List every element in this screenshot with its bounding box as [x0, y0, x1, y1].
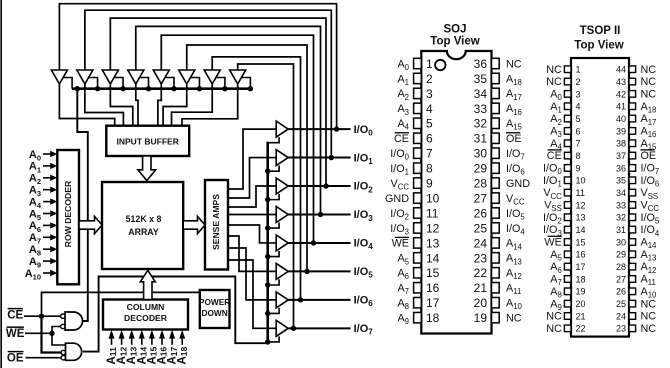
- wire data input DI6 to input buffer block: [172, 84, 213, 127]
- TSOP pin 44 stub: [629, 66, 636, 73]
- svg-text:24: 24: [616, 311, 626, 321]
- svg-text:A17: A17: [506, 88, 522, 102]
- wire A2 into row decoder: [43, 177, 52, 179]
- svg-text:OE: OE: [7, 352, 24, 364]
- wire data input DI4 to input buffer block: [158, 84, 161, 127]
- TSOP pin 13 stub: [564, 214, 571, 221]
- svg-text:CE: CE: [547, 150, 562, 162]
- TSOP pin 42 stub: [629, 91, 636, 98]
- wire enable tap of input buffer DI1: [89, 78, 98, 89]
- SOJ pin 3 stub: [414, 88, 422, 98]
- svg-text:8: 8: [576, 151, 581, 161]
- svg-text:7: 7: [426, 147, 433, 161]
- svg-text:9: 9: [426, 177, 433, 191]
- svg-text:NC: NC: [546, 311, 562, 323]
- TSOP pin 11 stub: [564, 189, 571, 196]
- TSOP pin 25 stub: [629, 300, 636, 307]
- svg-text:40: 40: [616, 114, 626, 124]
- SOJ pin 22 stub: [492, 268, 500, 278]
- svg-text:NC: NC: [546, 323, 562, 335]
- wire I/O2 output line: [288, 185, 350, 187]
- node junction enable tap DI2: [120, 86, 125, 91]
- arrow input buffer to array: [138, 156, 156, 181]
- arrow array to sense amps: [183, 216, 205, 233]
- svg-text:36: 36: [616, 163, 626, 173]
- svg-text:15: 15: [576, 237, 586, 247]
- wire CE to read gate: [42, 316, 62, 352]
- node feedback junction I/O1: [329, 155, 334, 160]
- TSOP pin 10 stub: [564, 177, 571, 184]
- SOJ pin 36 stub: [492, 58, 500, 68]
- TSOP pin 43 stub: [629, 78, 636, 85]
- wire sense amp output 3 to output buffer DO3: [228, 213, 276, 215]
- svg-text:5: 5: [576, 114, 581, 124]
- gate U2 read enable (WE*CE*OE): [66, 343, 82, 360]
- svg-text:SENSE AMPS: SENSE AMPS: [211, 194, 221, 250]
- TSOP pin 2 stub: [564, 78, 571, 85]
- svg-text:VCC: VCC: [391, 178, 410, 192]
- TSOP pin 18 stub: [564, 276, 571, 283]
- TSOP pin 34 stub: [629, 189, 636, 196]
- TSOP pin 9 stub: [564, 165, 571, 172]
- wire A1 into row decoder: [43, 165, 52, 167]
- wire sense amp output 4 to output buffer DO4: [228, 225, 276, 243]
- svg-text:INPUT BUFFER: INPUT BUFFER: [117, 137, 179, 147]
- wire write-enable bus: [72, 87, 251, 90]
- svg-text:13: 13: [426, 236, 440, 250]
- svg-text:22: 22: [576, 324, 586, 334]
- node junction enable tap DO3: [265, 225, 270, 230]
- wire feedback loop I/O2: [110, 18, 326, 186]
- input data buffer DI7: [230, 70, 246, 84]
- svg-text:34: 34: [474, 87, 488, 101]
- svg-text:OE: OE: [641, 150, 657, 162]
- svg-text:9: 9: [576, 163, 581, 173]
- wire A9 into row decoder: [43, 260, 52, 262]
- TSOP pin 16 stub: [564, 251, 571, 258]
- svg-text:31: 31: [474, 132, 488, 146]
- svg-text:27: 27: [474, 191, 488, 205]
- wire enable tap of input buffer DI5: [191, 78, 200, 89]
- SOJ pin 28 stub: [492, 178, 500, 188]
- svg-text:33: 33: [474, 102, 488, 116]
- block ROW DECODER: [57, 150, 79, 284]
- input data buffer DI3: [128, 70, 144, 84]
- SOJ pin 35 stub: [492, 73, 500, 83]
- TSOP pin 32 stub: [629, 214, 636, 221]
- wire sense amp output 2 to output buffer DO2: [228, 186, 276, 207]
- SOJ pin 13 stub: [414, 238, 422, 248]
- svg-text:I/O0: I/O0: [390, 148, 409, 162]
- svg-text:GND: GND: [385, 193, 409, 205]
- wire A5 into row decoder: [43, 213, 52, 215]
- svg-text:4: 4: [426, 102, 433, 116]
- svg-text:I/O4: I/O4: [354, 238, 374, 252]
- input data buffer DI1: [77, 70, 93, 84]
- svg-text:Top View: Top View: [430, 35, 479, 47]
- SOJ pin 31 stub: [492, 133, 500, 143]
- wire U2 output to output-enable bus: [83, 277, 268, 352]
- svg-text:A11: A11: [506, 283, 521, 297]
- svg-text:19: 19: [576, 287, 586, 297]
- svg-text:14: 14: [576, 225, 586, 235]
- svg-text:GND: GND: [506, 178, 530, 190]
- SOJ pin 15 stub: [414, 268, 422, 278]
- wire I/O4 output line: [288, 242, 350, 244]
- SOJ pin 4 stub: [414, 103, 422, 113]
- svg-text:33: 33: [616, 200, 626, 210]
- wire enable tap of output buffer DO1: [268, 166, 279, 172]
- svg-text:2: 2: [426, 72, 433, 86]
- node CE junction: [39, 314, 44, 319]
- svg-text:12: 12: [576, 200, 586, 210]
- svg-text:CE: CE: [394, 133, 409, 145]
- wire data input DI1 to input buffer block: [85, 84, 124, 127]
- wire data input DI3 to input buffer block: [136, 84, 138, 127]
- wire data input DI0 to input buffer block: [59, 84, 114, 127]
- TSOP pin 20 stub: [564, 300, 571, 307]
- svg-text:A7: A7: [397, 283, 409, 297]
- svg-text:35: 35: [474, 72, 488, 86]
- svg-text:NC: NC: [506, 58, 522, 70]
- svg-text:DECODER: DECODER: [124, 313, 168, 323]
- svg-text:I/O5: I/O5: [506, 208, 525, 222]
- wire sense amp output 1 to output buffer DO1: [228, 158, 276, 198]
- svg-text:I/O3: I/O3: [390, 223, 409, 237]
- svg-text:2: 2: [576, 77, 581, 87]
- wire enable tap of input buffer DI0: [63, 78, 72, 89]
- TSOP pin 36 stub: [629, 165, 636, 172]
- svg-text:A18: A18: [506, 73, 522, 87]
- svg-text:A15: A15: [506, 118, 523, 132]
- svg-text:17: 17: [576, 262, 586, 272]
- svg-text:SOJ: SOJ: [443, 24, 466, 36]
- svg-text:NC: NC: [641, 76, 657, 88]
- svg-text:A6: A6: [397, 268, 409, 282]
- input data buffer DI6: [204, 70, 220, 84]
- wire A8 into row decoder: [43, 248, 52, 250]
- wire A15 into column decoder: [151, 337, 153, 345]
- TSOP pin 3 stub: [564, 91, 571, 98]
- wire output-enable bus: [266, 142, 269, 344]
- TSOP pin 15 stub: [564, 239, 571, 246]
- svg-text:6: 6: [576, 126, 581, 136]
- svg-text:NC: NC: [641, 88, 657, 100]
- wire data input DI5 to input buffer block: [163, 84, 187, 127]
- svg-text:17: 17: [426, 296, 440, 310]
- TSOP pin 5 stub: [564, 115, 571, 122]
- wire A14 into column decoder: [141, 337, 143, 345]
- wire A16 into column decoder: [161, 337, 163, 345]
- wire I/O1 output line: [288, 157, 350, 159]
- TSOP pin 37 stub: [629, 152, 636, 159]
- TSOP pin 30 stub: [629, 239, 636, 246]
- svg-text:Top View: Top View: [574, 40, 623, 52]
- TSOP pin 4 stub: [564, 103, 571, 110]
- svg-text:A18: A18: [177, 346, 189, 364]
- svg-text:32: 32: [616, 213, 626, 223]
- svg-text:23: 23: [474, 251, 488, 265]
- SOJ package body with pin-1 notch: [421, 51, 491, 334]
- svg-text:A9: A9: [397, 312, 409, 326]
- node junction enable tap DI1: [95, 86, 100, 91]
- node feedback junction I/O3: [318, 212, 323, 217]
- wire feedback loop I/O7: [238, 64, 294, 328]
- svg-text:WE: WE: [544, 237, 561, 249]
- svg-text:3: 3: [426, 87, 433, 101]
- SOJ pin 19 stub: [492, 312, 500, 322]
- svg-text:42: 42: [616, 89, 626, 99]
- wire enable tap of output buffer DO7: [268, 336, 279, 342]
- block INPUT BUFFER: [106, 126, 189, 156]
- output data buffer DO1: [276, 150, 288, 166]
- svg-text:NC: NC: [641, 323, 657, 335]
- SOJ pin 5 stub: [414, 118, 422, 128]
- SOJ pin 24 stub: [492, 238, 500, 248]
- svg-text:A5: A5: [397, 253, 409, 267]
- svg-text:NC: NC: [641, 64, 657, 76]
- SOJ pin 8 stub: [414, 163, 422, 173]
- wire enable tap of input buffer DI4: [165, 78, 174, 89]
- wire A12 into column decoder: [121, 337, 123, 345]
- TSOP pin 14 stub: [564, 226, 571, 233]
- wire feedback loop I/O6: [212, 57, 300, 300]
- wire I/O3 output line: [288, 213, 350, 215]
- wire A0 into row decoder: [43, 153, 52, 155]
- block COLUMN DECODER: [103, 300, 188, 330]
- block POWER DOWN: [200, 290, 230, 328]
- svg-text:NC: NC: [506, 312, 522, 324]
- node junction enable tap DO4: [265, 254, 270, 259]
- svg-text:ARRAY: ARRAY: [128, 227, 159, 237]
- TSOP pin 39 stub: [629, 128, 636, 135]
- svg-text:16: 16: [426, 281, 440, 295]
- output data buffer DO5: [276, 263, 288, 279]
- svg-text:24: 24: [474, 236, 488, 250]
- svg-text:I/O7: I/O7: [354, 323, 374, 337]
- gate U1 write enable (CE*WE): [65, 312, 83, 330]
- svg-text:12: 12: [426, 221, 440, 235]
- svg-text:I/O0: I/O0: [354, 124, 374, 138]
- SOJ pin 2 stub: [414, 73, 422, 83]
- svg-text:35: 35: [616, 176, 626, 186]
- wire feedback loop I/O4: [161, 35, 313, 243]
- svg-text:A13: A13: [506, 253, 522, 267]
- svg-text:NC: NC: [641, 298, 657, 310]
- SOJ pin 27 stub: [492, 193, 500, 203]
- gate U1 input bubble WE: [61, 324, 65, 328]
- svg-text:I/O2: I/O2: [390, 208, 409, 222]
- svg-text:10: 10: [576, 176, 586, 186]
- svg-text:WE: WE: [392, 238, 409, 250]
- SOJ pin 10 stub: [414, 193, 422, 203]
- SOJ pin 29 stub: [492, 163, 500, 173]
- node feedback junction I/O6: [298, 297, 303, 302]
- SOJ pin 30 stub: [492, 148, 500, 158]
- svg-text:7: 7: [576, 139, 581, 149]
- TSOP pin 29 stub: [629, 251, 636, 258]
- wire feedback loop I/O3: [136, 26, 321, 214]
- wire feedback loop I/O5: [187, 45, 307, 271]
- svg-text:10: 10: [426, 191, 440, 205]
- wire enable tap of output buffer DO3: [268, 222, 279, 228]
- TSOP II package body: [571, 58, 629, 337]
- TSOP pin 21 stub: [564, 313, 571, 320]
- TSOP pin 26 stub: [629, 288, 636, 295]
- TSOP pin 28 stub: [629, 263, 636, 270]
- SOJ pin 14 stub: [414, 253, 422, 263]
- svg-text:16: 16: [576, 250, 586, 260]
- wire data input DI7 to input buffer block: [182, 84, 238, 127]
- svg-text:I/O6: I/O6: [354, 295, 374, 309]
- svg-text:6: 6: [426, 132, 433, 146]
- svg-text:43: 43: [616, 77, 626, 87]
- svg-text:21: 21: [474, 281, 488, 295]
- wire sense amp output 0 to output buffer DO0: [228, 129, 276, 189]
- svg-text:A14: A14: [506, 238, 523, 252]
- svg-text:I/O1: I/O1: [390, 163, 409, 177]
- wire enable tap of input buffer DI3: [140, 78, 149, 89]
- svg-text:POWER: POWER: [199, 297, 230, 307]
- SOJ pin 6 stub: [414, 133, 422, 143]
- TSOP pin 41 stub: [629, 103, 636, 110]
- TSOP pin 22 stub: [564, 325, 571, 332]
- wire enable tap of output buffer DO0: [268, 137, 279, 143]
- SOJ pin 11 stub: [414, 208, 422, 218]
- wire I/O0 output line: [288, 128, 350, 130]
- output data buffer DO6: [276, 292, 288, 308]
- SOJ pin 23 stub: [492, 253, 500, 263]
- svg-text:DOWN: DOWN: [201, 308, 227, 318]
- wire A6 into row decoder: [43, 224, 52, 226]
- wire OE input: [26, 357, 62, 359]
- svg-text:I/O7: I/O7: [506, 148, 525, 162]
- svg-text:1: 1: [426, 57, 433, 71]
- TSOP pin 31 stub: [629, 226, 636, 233]
- svg-text:A16: A16: [506, 103, 522, 117]
- input data buffer DI2: [102, 70, 118, 84]
- svg-text:20: 20: [576, 299, 586, 309]
- TSOP pin 6 stub: [564, 128, 571, 135]
- node junction enable tap DI5: [197, 86, 202, 91]
- node U1 output junction on bus: [75, 86, 80, 91]
- svg-text:30: 30: [616, 237, 626, 247]
- SOJ pin 1 index circle: [435, 60, 445, 70]
- input data buffer DI0: [51, 70, 67, 84]
- node junction enable tap DI6: [222, 86, 227, 91]
- input data buffer DI5: [179, 70, 195, 84]
- TSOP pin 8 stub: [564, 152, 571, 159]
- svg-text:11: 11: [426, 206, 439, 220]
- wire A13 into column decoder: [131, 337, 133, 345]
- svg-text:4: 4: [576, 102, 581, 112]
- block 512K x 8 ARRAY: [102, 182, 183, 269]
- SOJ pin 17 stub: [414, 298, 422, 308]
- svg-text:28: 28: [616, 262, 626, 272]
- svg-text:I/O1: I/O1: [354, 152, 374, 166]
- svg-text:1: 1: [576, 65, 581, 75]
- svg-text:31: 31: [616, 225, 626, 235]
- node junction enable tap DI3: [146, 86, 151, 91]
- svg-text:13: 13: [576, 213, 586, 223]
- node feedback junction I/O7: [291, 326, 296, 331]
- svg-text:26: 26: [474, 206, 488, 220]
- node junction enable tap DO7: [265, 339, 270, 344]
- svg-text:A12: A12: [506, 268, 522, 282]
- svg-text:A2: A2: [397, 88, 409, 102]
- SOJ pin 16 stub: [414, 283, 422, 293]
- svg-text:I/O2: I/O2: [354, 181, 374, 195]
- figure left border: [0, 0, 2, 368]
- node feedback junction I/O5: [304, 269, 309, 274]
- input data buffer DI4: [153, 70, 169, 84]
- svg-text:36: 36: [474, 57, 488, 71]
- svg-text:OE: OE: [506, 133, 522, 145]
- TSOP pin 38 stub: [629, 140, 636, 147]
- wire data input DI2 to input buffer block: [110, 84, 132, 127]
- wire CE input: [24, 315, 61, 317]
- node junction enable tap DO1: [265, 168, 270, 173]
- svg-text:30: 30: [474, 147, 488, 161]
- wire A11 into column decoder: [111, 337, 113, 345]
- svg-text:18: 18: [426, 311, 440, 325]
- SOJ pin 21 stub: [492, 283, 500, 293]
- node junction enable tap DO5: [265, 282, 270, 287]
- svg-text:I/O4: I/O4: [506, 223, 525, 237]
- wire sense amp output 5 to output buffer DO5: [228, 236, 276, 271]
- block SENSE AMPS: [205, 180, 228, 270]
- SOJ pin 18 stub: [414, 312, 422, 322]
- svg-text:VCC: VCC: [506, 193, 525, 207]
- svg-text:25: 25: [616, 299, 626, 309]
- node feedback junction I/O2: [323, 183, 328, 188]
- svg-text:NC: NC: [546, 64, 562, 76]
- svg-text:15: 15: [426, 266, 440, 280]
- gate U2 input bubble CE: [61, 350, 65, 354]
- wire A18 into column decoder: [181, 337, 183, 345]
- svg-text:11: 11: [576, 188, 585, 198]
- svg-text:27: 27: [616, 274, 626, 284]
- TSOP pin 23 stub: [629, 325, 636, 332]
- svg-text:34: 34: [616, 188, 626, 198]
- SOJ pin 26 stub: [492, 208, 500, 218]
- TSOP pin 7 stub: [564, 140, 571, 147]
- SOJ pin 25 stub: [492, 223, 500, 233]
- gate U1 input bubble CE: [61, 314, 65, 318]
- SOJ pin 33 stub: [492, 103, 500, 113]
- wire A17 into column decoder: [171, 337, 173, 345]
- wire A10 into row decoder: [43, 272, 52, 274]
- svg-text:37: 37: [616, 151, 626, 161]
- svg-text:26: 26: [616, 287, 626, 297]
- node WE junction: [49, 331, 54, 336]
- svg-text:5: 5: [426, 117, 433, 131]
- svg-text:NC: NC: [546, 76, 562, 88]
- arrow column decoder to array: [140, 270, 155, 299]
- SOJ pin 32 stub: [492, 118, 500, 128]
- svg-text:8: 8: [426, 162, 433, 176]
- wire enable tap of output buffer DO4: [268, 251, 279, 257]
- node feedback junction I/O0: [334, 126, 339, 131]
- wire WE to write gate: [52, 327, 61, 334]
- TSOP pin 33 stub: [629, 202, 636, 209]
- wire enable tap of output buffer DO6: [268, 308, 279, 314]
- wire I/O7 output line: [288, 327, 350, 329]
- svg-text:NC: NC: [641, 311, 657, 323]
- wire I/O6 output line: [288, 299, 350, 301]
- wire U1 output to write-enable bus: [77, 89, 88, 321]
- wire sense amp output 7 to output buffer DO7: [228, 260, 276, 328]
